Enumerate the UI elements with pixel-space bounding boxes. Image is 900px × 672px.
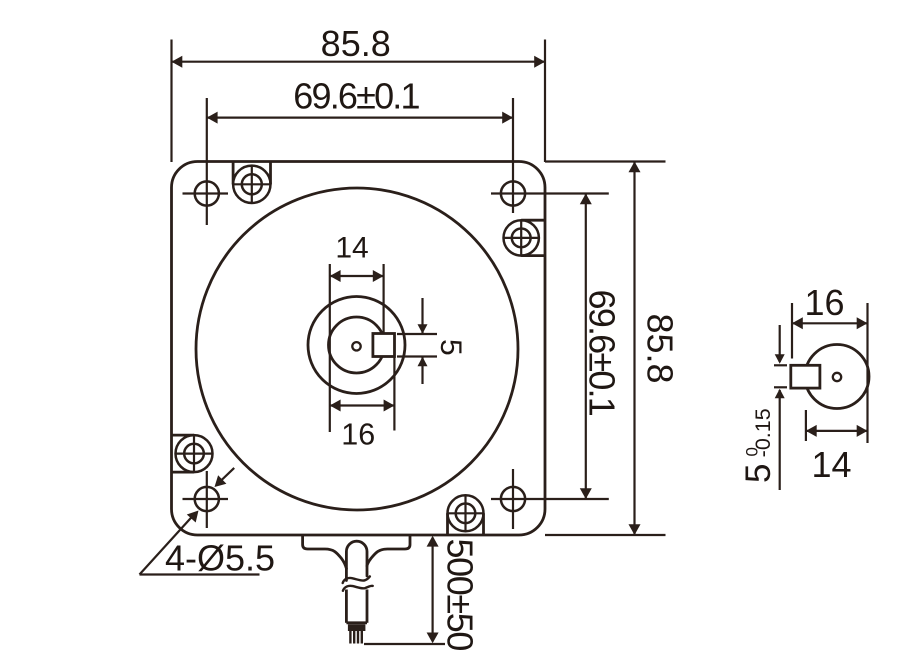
svg-text:14: 14 <box>335 232 368 265</box>
svg-text:69.6±0.1: 69.6±0.1 <box>293 76 419 117</box>
svg-text:0: 0 <box>743 447 762 456</box>
svg-text:85.8: 85.8 <box>640 314 681 384</box>
svg-text:16: 16 <box>804 282 844 323</box>
svg-text:5: 5 <box>434 339 467 356</box>
svg-text:14: 14 <box>811 444 851 485</box>
svg-text:5: 5 <box>739 464 778 483</box>
svg-text:4-Ø5.5: 4-Ø5.5 <box>165 538 275 579</box>
svg-text:85.8: 85.8 <box>321 23 391 64</box>
svg-text:500±50: 500±50 <box>440 539 481 651</box>
svg-text:69.6±0.1: 69.6±0.1 <box>582 290 623 416</box>
svg-text:16: 16 <box>341 418 375 452</box>
